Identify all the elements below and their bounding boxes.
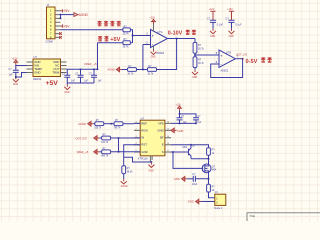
wire to connector pin1 bbox=[209, 192, 215, 198]
svg-text:1uF: 1uF bbox=[71, 81, 76, 83]
wire op-amp2 output bbox=[235, 58, 243, 60]
connector J1 8-pin header bbox=[46, 3, 61, 43]
svg-text:GND: GND bbox=[151, 57, 156, 59]
resistor R5 vertical bbox=[193, 42, 205, 53]
wire pin4 to long vertical bbox=[124, 145, 141, 166]
svg-text:1uF: 1uF bbox=[98, 81, 103, 83]
svg-text:GND: GND bbox=[141, 150, 147, 154]
op-amp1 V- pin to GND bbox=[151, 46, 157, 59]
svg-text:30.7k: 30.7k bbox=[123, 33, 130, 36]
svg-text:AGND: AGND bbox=[108, 68, 116, 72]
svg-text:30.7k: 30.7k bbox=[128, 73, 134, 75]
svg-text:536.7k: 536.7k bbox=[94, 128, 102, 130]
svg-text:AGND: AGND bbox=[79, 13, 89, 17]
svg-text:1uF: 1uF bbox=[84, 81, 89, 83]
wire row3 to pin bbox=[111, 151, 141, 153]
svg-text:1uF: 1uF bbox=[9, 74, 14, 77]
svg-text:XTR110: XTR110 bbox=[138, 156, 148, 160]
transistor Q1 bbox=[171, 144, 196, 158]
svg-text:GND: GND bbox=[34, 71, 40, 75]
svg-text:38.3k: 38.3k bbox=[127, 170, 134, 173]
no-connect X pin8 bbox=[59, 36, 62, 39]
svg-text:GND: GND bbox=[157, 128, 163, 132]
no-connect X pin7 bbox=[59, 32, 62, 35]
op-amp1 V+ pin to +12V bbox=[150, 18, 157, 32]
svg-text:Title: Title bbox=[250, 214, 256, 218]
svg-text:10uF: 10uF bbox=[192, 183, 198, 186]
wire reference +5V bbox=[98, 42, 123, 44]
wire VPS pin1 rail bbox=[171, 123, 197, 125]
wire op-amp1 output bbox=[168, 38, 196, 40]
svg-text:GND: GND bbox=[192, 77, 197, 79]
svg-text:GND: GND bbox=[177, 129, 183, 133]
label 基准+5V bbox=[98, 36, 121, 43]
capacitor C2 0.1uF bbox=[226, 9, 242, 38]
+5V power port pin1 bbox=[61, 9, 71, 13]
wire VREF vertical bbox=[97, 43, 99, 70]
svg-text:30.7k: 30.7k bbox=[148, 73, 154, 75]
svg-text:U?A: U?A bbox=[158, 31, 163, 34]
wire down to divider bbox=[194, 39, 196, 43]
wire feedback to output bbox=[157, 39, 177, 70]
svg-text:GND: GND bbox=[174, 177, 180, 181]
resistor R1 30.7k bbox=[123, 25, 131, 35]
svg-text:M02: M02 bbox=[183, 147, 188, 149]
resistor R7 536.7k bbox=[94, 120, 104, 129]
svg-text:786.7k: 786.7k bbox=[114, 128, 122, 130]
svg-text:TRIM: TRIM bbox=[52, 71, 60, 75]
wire pin3 junction bbox=[60, 15, 62, 20]
capacitor C1 0.1uF bbox=[207, 9, 223, 38]
capacitor C4 1uF bbox=[62, 69, 75, 83]
svg-text:AD822: AD822 bbox=[157, 52, 165, 55]
svg-text:REF: REF bbox=[141, 121, 147, 125]
op-amp U1A bbox=[151, 30, 168, 56]
MOSFET Q2 bbox=[202, 164, 217, 173]
capacitor C6 1uF bbox=[89, 69, 102, 83]
wire pin13 to resistor bbox=[171, 144, 209, 148]
svg-text:+5V: +5V bbox=[63, 24, 70, 28]
svg-text:U?: U? bbox=[141, 116, 145, 120]
VREF_+5 port row3 bbox=[77, 150, 102, 155]
node MOSFET source junction bbox=[208, 173, 210, 184]
OUT_0-5 port row2 bbox=[76, 136, 102, 141]
svg-text:102.7k: 102.7k bbox=[101, 142, 109, 144]
AGND port row1 bbox=[78, 121, 95, 126]
svg-text:IN: IN bbox=[141, 136, 144, 140]
wire gate from pin9 bbox=[172, 151, 202, 168]
svg-text:GND: GND bbox=[149, 171, 154, 173]
wire gnd loop left bbox=[124, 157, 152, 162]
wire cap bus to ground bbox=[64, 83, 94, 94]
svg-text:1uF: 1uF bbox=[197, 122, 202, 124]
resistor R8 786.7k bbox=[114, 120, 124, 129]
wire -in bbox=[143, 41, 151, 69]
ground below U3 bbox=[148, 161, 154, 172]
wire row2 to pin with junction bbox=[111, 137, 141, 152]
wire R2 to node bbox=[130, 42, 132, 44]
+12V power transistor block bbox=[176, 104, 197, 118]
svg-text:30.7k: 30.7k bbox=[198, 48, 205, 51]
capacitor C7 1uF bbox=[177, 116, 188, 124]
wire feedback op-amp2 bbox=[211, 59, 243, 78]
svg-text:AGND: AGND bbox=[78, 122, 86, 126]
svg-text:GND: GND bbox=[210, 36, 215, 38]
ground below R6 bbox=[192, 68, 198, 79]
svg-text:GND: GND bbox=[13, 84, 18, 86]
svg-text:RGN: RGN bbox=[141, 128, 147, 132]
capacitor C5 0.1uF bbox=[75, 69, 88, 83]
resistor R6 vertical bbox=[193, 57, 205, 68]
capacitor C3 1uF input bbox=[9, 66, 19, 87]
resistor R10 483.7k bbox=[101, 148, 111, 157]
svg-text:CON8: CON8 bbox=[46, 40, 54, 44]
junction row1 bbox=[104, 123, 114, 125]
label 输入信号 bbox=[97, 21, 121, 26]
svg-text:+5V: +5V bbox=[63, 9, 70, 13]
svg-text:GND: GND bbox=[188, 200, 194, 204]
AGND port feedback row bbox=[108, 67, 128, 72]
svg-text:BF: BF bbox=[160, 136, 164, 140]
svg-text:M04: M04 bbox=[212, 170, 217, 172]
svg-text:E: E bbox=[162, 143, 164, 147]
resistor R12 vertical bbox=[207, 148, 216, 156]
svg-text:VPS: VPS bbox=[158, 121, 164, 125]
svg-text:REF02: REF02 bbox=[33, 77, 42, 81]
GND port cap row bbox=[174, 177, 194, 182]
label 0-5V输出 bbox=[246, 57, 272, 65]
wire emitter row bbox=[191, 155, 209, 165]
svg-text:+12V: +12V bbox=[12, 58, 18, 60]
svg-text:+12V: +12V bbox=[150, 18, 156, 20]
GND port pin2 bbox=[171, 128, 183, 133]
svg-text:VREF_+5: VREF_+5 bbox=[77, 150, 89, 154]
op-amp U1B bbox=[216, 50, 239, 73]
svg-text:U?B: U?B bbox=[226, 52, 231, 55]
svg-text:+5V: +5V bbox=[46, 80, 59, 87]
title block bbox=[247, 213, 320, 221]
capacitor C9 10uF bbox=[192, 173, 209, 186]
+5V power port pin5 bbox=[61, 24, 71, 28]
resistor R4 bbox=[148, 66, 157, 75]
junction feedback bbox=[137, 69, 148, 71]
resistor R9 1023.7k bbox=[101, 135, 111, 144]
svg-text:483.7k: 483.7k bbox=[101, 156, 109, 158]
svg-text:VREF_+5: VREF_+5 bbox=[84, 62, 97, 66]
svg-text:Node 1: Node 1 bbox=[214, 207, 223, 210]
svg-text:0.1uF: 0.1uF bbox=[235, 23, 242, 26]
resistor R3 bbox=[128, 66, 137, 75]
svg-text:0-5V: 0-5V bbox=[246, 59, 258, 65]
resistor R2 30.7k bbox=[123, 38, 131, 48]
svg-text:+5V: +5V bbox=[110, 37, 120, 43]
svg-text:GND: GND bbox=[229, 36, 234, 38]
svg-text:GND: GND bbox=[64, 92, 69, 94]
svg-text:30.7k: 30.7k bbox=[123, 46, 130, 49]
svg-text:U?: U? bbox=[34, 55, 38, 59]
resistor R13 vertical bbox=[207, 184, 216, 192]
wire input signal bbox=[61, 29, 123, 31]
IC U3 XTR110 bbox=[134, 116, 171, 162]
svg-text:+12V: +12V bbox=[176, 104, 182, 106]
svg-text:30.7k: 30.7k bbox=[198, 62, 205, 65]
svg-text:0-10V: 0-10V bbox=[168, 31, 183, 37]
wire +5V output rail bbox=[67, 69, 98, 71]
AGND power port pin2 bbox=[60, 13, 89, 17]
resistor R11 38.3k vertical bbox=[122, 166, 133, 174]
svg-text:OUT_0-5: OUT_0-5 bbox=[236, 53, 248, 57]
svg-text:AD822: AD822 bbox=[221, 70, 229, 73]
wire GND pin4 to cap node bbox=[15, 73, 27, 78]
ground below R11 bbox=[121, 174, 128, 189]
GND port bottom bbox=[188, 199, 215, 204]
capacitor C8 1uF bbox=[193, 116, 202, 124]
svg-text:0.1uF: 0.1uF bbox=[217, 23, 224, 26]
svg-text:S: S bbox=[162, 150, 164, 154]
svg-text:RST: RST bbox=[141, 143, 147, 147]
connector J2 Node1 bbox=[214, 191, 226, 210]
wire row1 to pin bbox=[123, 122, 140, 124]
label 0-10V输出 bbox=[168, 30, 196, 37]
divider mid node bbox=[194, 52, 219, 57]
wire to op-amp +in, node bbox=[130, 30, 150, 43]
regulator U2 REF02 bbox=[27, 55, 67, 81]
+12V power input left bbox=[12, 58, 27, 65]
svg-text:OUT_0-5: OUT_0-5 bbox=[76, 136, 88, 140]
svg-text:AGND: AGND bbox=[121, 185, 128, 188]
